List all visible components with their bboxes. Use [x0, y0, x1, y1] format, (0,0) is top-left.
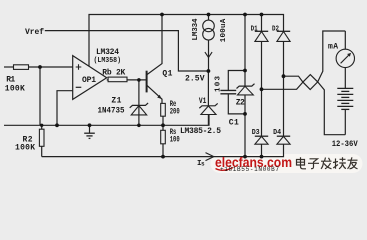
- wire - input riser: [57, 91, 73, 126]
- diode D4: [277, 135, 290, 137]
- wire C1 bottom connection: [228, 94, 245, 114]
- watermark chinese 烧: [333, 157, 346, 169]
- svg-text:s: s: [201, 161, 205, 168]
- transistor Q1 base bar: [146, 71, 148, 93]
- svg-text:R1: R1: [6, 76, 15, 85]
- svg-text:2.5V: 2.5V: [185, 74, 205, 83]
- svg-text:Q1: Q1: [162, 70, 172, 79]
- wire D1 branch: [261, 15, 263, 157]
- wire R2 stubs: [41, 125, 43, 156]
- wire battery bottom stub: [344, 109, 346, 134]
- op-amp U1 triangle: [73, 56, 107, 100]
- current source LM334 circles: [203, 20, 215, 32]
- wire V1 branch: [207, 71, 209, 125]
- wire top rail with V+ drop and D2 stub: [89, 15, 284, 67]
- svg-text:V1: V1: [199, 97, 207, 106]
- battery 12-36V bars: [337, 88, 353, 109]
- watermark swoosh: [216, 168, 234, 171]
- resistor R2: [39, 129, 44, 146]
- svg-text:Rb 2K: Rb 2K: [102, 69, 125, 78]
- wire crossover upper left: [284, 76, 303, 82]
- wire bottom rail with D4 stub: [42, 144, 284, 156]
- transistor Q1 emitter arrow: [157, 95, 161, 99]
- svg-text:LM324: LM324: [96, 48, 119, 57]
- wire Q1 emitter: [147, 85, 162, 103]
- svg-text:100K: 100K: [5, 85, 25, 94]
- wire Re to mid rail: [162, 116, 164, 125]
- resistor R1: [14, 65, 29, 70]
- wire C1 top connection: [228, 71, 245, 91]
- svg-text:100: 100: [170, 135, 180, 144]
- svg-text:LM385-2.5: LM385-2.5: [180, 127, 221, 136]
- watermark pill background: [211, 154, 363, 173]
- svg-text:Vref: Vref: [25, 28, 44, 37]
- resistor Rb: [108, 77, 127, 82]
- resistor Re: [161, 103, 166, 116]
- crossover diamond: [303, 75, 318, 90]
- svg-text:103: 103: [214, 76, 222, 92]
- svg-text:100uA: 100uA: [220, 18, 228, 42]
- op-amp - sign: [76, 86, 82, 88]
- wire crossover lower left: [262, 82, 303, 89]
- svg-text:(LM358): (LM358): [94, 57, 122, 65]
- wire node A drop: [39, 67, 41, 125]
- zener V1: [199, 103, 217, 108]
- wire Vref line: [45, 31, 209, 71]
- svg-text:D2: D2: [272, 25, 279, 33]
- svg-text:mA: mA: [328, 43, 338, 52]
- wire crossover to battery bottom: [318, 82, 346, 135]
- svg-text:200: 200: [170, 107, 180, 116]
- wire op-amp output: [107, 79, 108, 81]
- wire Z1 branch: [138, 80, 140, 125]
- wire R1 to op-amp + input: [29, 66, 73, 68]
- watermark chinese 电: [297, 157, 307, 169]
- svg-text:Z2: Z2: [236, 99, 245, 108]
- meter needle arrow: [341, 53, 351, 63]
- wire Rs stubs: [162, 125, 164, 156]
- svg-text:D4: D4: [273, 129, 281, 137]
- watermark chinese 发: [321, 158, 332, 169]
- svg-text:C1: C1: [229, 119, 239, 128]
- wire crossover to meter: [318, 31, 346, 82]
- ground: [84, 125, 95, 138]
- svg-text:LM334: LM334: [192, 18, 200, 40]
- wire LM334 branch: [208, 15, 210, 72]
- capacitor C1 plates: [220, 90, 236, 93]
- wire mid rail: [4, 115, 209, 126]
- svg-text:Z1: Z1: [111, 96, 121, 105]
- diode D2: [277, 30, 290, 32]
- svg-text:+181B55-1N00B7: +181B55-1N00B7: [220, 166, 279, 173]
- wire Z2 branch: [244, 15, 246, 157]
- LM334 arrow: [205, 52, 212, 57]
- watermark chinese 子: [308, 159, 319, 169]
- wire R1 input lead: [4, 66, 14, 68]
- current arrow Is: [206, 153, 214, 161]
- zener Z1: [130, 103, 148, 108]
- wire meter to battery: [344, 68, 346, 89]
- zener Z2: [237, 84, 255, 89]
- svg-text:100K: 100K: [15, 144, 35, 153]
- wire D2-D4 branch: [283, 41, 285, 136]
- svg-text:OP1: OP1: [82, 76, 96, 85]
- wire Q1 collector: [147, 15, 162, 75]
- diode D1: [255, 30, 268, 32]
- svg-text:D1: D1: [251, 25, 258, 33]
- svg-text:1N4735: 1N4735: [98, 106, 125, 115]
- meter mA circle: [336, 49, 354, 67]
- resistor Rs: [161, 130, 166, 144]
- watermark chinese 友: [348, 157, 358, 169]
- svg-text:12-36V: 12-36V: [332, 140, 358, 149]
- svg-text:D3: D3: [252, 129, 260, 137]
- wire Rb to Q1 base: [127, 79, 147, 81]
- op-amp + sign: [76, 64, 82, 70]
- diode D3: [255, 135, 268, 137]
- wire meter stub: [344, 31, 346, 49]
